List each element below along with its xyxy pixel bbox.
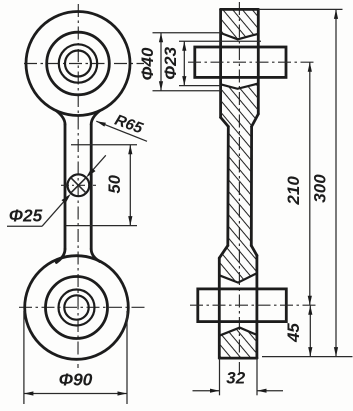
dimension 300: top extension line xyxy=(258,8,342,10)
front view: middle hole cross diagonal 1 xyxy=(71,178,86,193)
front view: bottom boss circle 2 xyxy=(46,277,108,339)
svg-text:210: 210 xyxy=(284,176,303,206)
front view: top boss outer circle xyxy=(26,12,130,116)
section view: top boss left edge xyxy=(219,9,222,117)
svg-text:45: 45 xyxy=(284,323,303,343)
front view: neck right edge xyxy=(90,124,93,249)
front view: vertical centerline xyxy=(77,4,79,368)
section view: flare right above bottom boss xyxy=(251,246,257,256)
leader d25: slanted line to hole xyxy=(42,196,69,226)
leader d25: opposite line upper-right xyxy=(88,155,106,175)
dimension 50: bottom extension line xyxy=(66,225,137,227)
section view: flare left above bottom boss xyxy=(219,246,228,258)
section view: bottom boss left edge xyxy=(218,258,221,358)
section view: top boss top edge xyxy=(221,8,259,11)
section view: top boss right edge xyxy=(257,9,260,114)
svg-text:32: 32 xyxy=(226,369,245,388)
front view: top boss horizontal centerline xyxy=(24,63,144,65)
front view: bottom boss horizontal centerline xyxy=(19,306,148,308)
dimension d90: dimension line xyxy=(24,393,127,395)
dimension 32: right dimension line xyxy=(257,390,283,392)
leader d25: arrowhead at hole upper-right xyxy=(86,168,95,178)
svg-text:Φ23: Φ23 xyxy=(161,46,180,79)
front view: neck fillet bottom-right xyxy=(91,249,100,262)
leader d25: shelf line xyxy=(7,225,42,227)
front view: bottom boss outer circle d90 xyxy=(25,256,129,360)
section view: taper left below top boss xyxy=(221,117,229,126)
front view: neck fillet top-left xyxy=(56,111,65,125)
dimension d40: bottom extension line xyxy=(153,90,222,92)
dimension d40: top extension line xyxy=(153,32,222,34)
section view: top pin rectangle xyxy=(195,47,286,77)
section view: top chamfer V lines xyxy=(221,33,259,39)
section view: bottom pin centerline xyxy=(190,304,319,306)
section view: taper right below top boss xyxy=(252,114,259,127)
dimension 32: right extension line xyxy=(256,358,258,395)
section view: chamfer V below top pin xyxy=(221,84,259,89)
front view: neck fillet top-right R65 xyxy=(91,111,100,125)
leader R65: arrowhead xyxy=(96,121,106,126)
dimension 300: dimension line xyxy=(335,9,337,356)
dimension d90: arrow right xyxy=(118,391,128,395)
section view: shaft left edge xyxy=(226,127,229,246)
front view: top boss circle d23 outer xyxy=(59,44,97,82)
dimension 45: dimension line xyxy=(309,305,311,356)
dimension 50: dimension line xyxy=(129,145,131,226)
front view: bottom boss circle 3 xyxy=(59,290,95,326)
dimension 210: dimension line xyxy=(309,62,311,305)
front view: top boss circle d23 inner xyxy=(65,51,91,77)
dimension d23: bottom extension line xyxy=(179,85,221,87)
dimension 50: top extension line xyxy=(71,144,137,146)
dimension d90: right extension line xyxy=(126,311,128,404)
front view: middle hole circle d25 xyxy=(68,174,90,196)
dimension 50: arrow up xyxy=(128,145,132,155)
section view: top boss hatching xyxy=(221,9,259,39)
dimension 32: left extension line xyxy=(219,358,221,395)
front view: neck left edge xyxy=(64,124,67,249)
dimension d23: dimension line xyxy=(183,41,185,85)
front view: neck fillet bottom-left xyxy=(56,249,65,263)
dimension 32: left dimension line xyxy=(193,390,220,392)
dimension d23: top extension line xyxy=(179,40,261,42)
leader R65: line xyxy=(96,121,147,141)
section view: bottom end edge xyxy=(219,357,257,360)
section view: bottom chamfer peak lines xyxy=(219,328,257,336)
dimension 50: arrow down xyxy=(128,216,132,226)
section view: middle body hatching xyxy=(219,84,258,283)
dimension d90: left extension line xyxy=(23,311,25,404)
front view: middle hole horizontal centerline xyxy=(61,184,96,186)
leader d25: arrowhead at hole lower-left xyxy=(62,194,71,204)
svg-text:300: 300 xyxy=(310,174,329,203)
dimension 45/300: bottom extension line xyxy=(262,356,353,358)
section view: shaft right edge xyxy=(250,127,253,246)
front view: bottom boss circle 4 xyxy=(64,295,88,319)
section view: bottom boss right edge xyxy=(255,256,258,359)
dimension d90: arrow left xyxy=(24,391,34,395)
section view: bottom end hatching xyxy=(219,328,257,359)
svg-text:Φ40: Φ40 xyxy=(138,47,157,80)
svg-text:Φ25: Φ25 xyxy=(9,206,43,226)
front view: middle hole cross diagonal 2 xyxy=(71,178,86,193)
section view: vertical centerline xyxy=(238,2,240,374)
dimension d40: dimension line xyxy=(160,33,162,91)
section view: top pin centerline xyxy=(188,61,317,63)
svg-text:Φ90: Φ90 xyxy=(59,370,93,390)
section view: bottom pin rectangle xyxy=(198,289,286,322)
front view: top boss circle d40 xyxy=(47,32,110,95)
section view: chamfer V above bottom pin xyxy=(219,273,257,282)
svg-text:50: 50 xyxy=(106,174,124,193)
